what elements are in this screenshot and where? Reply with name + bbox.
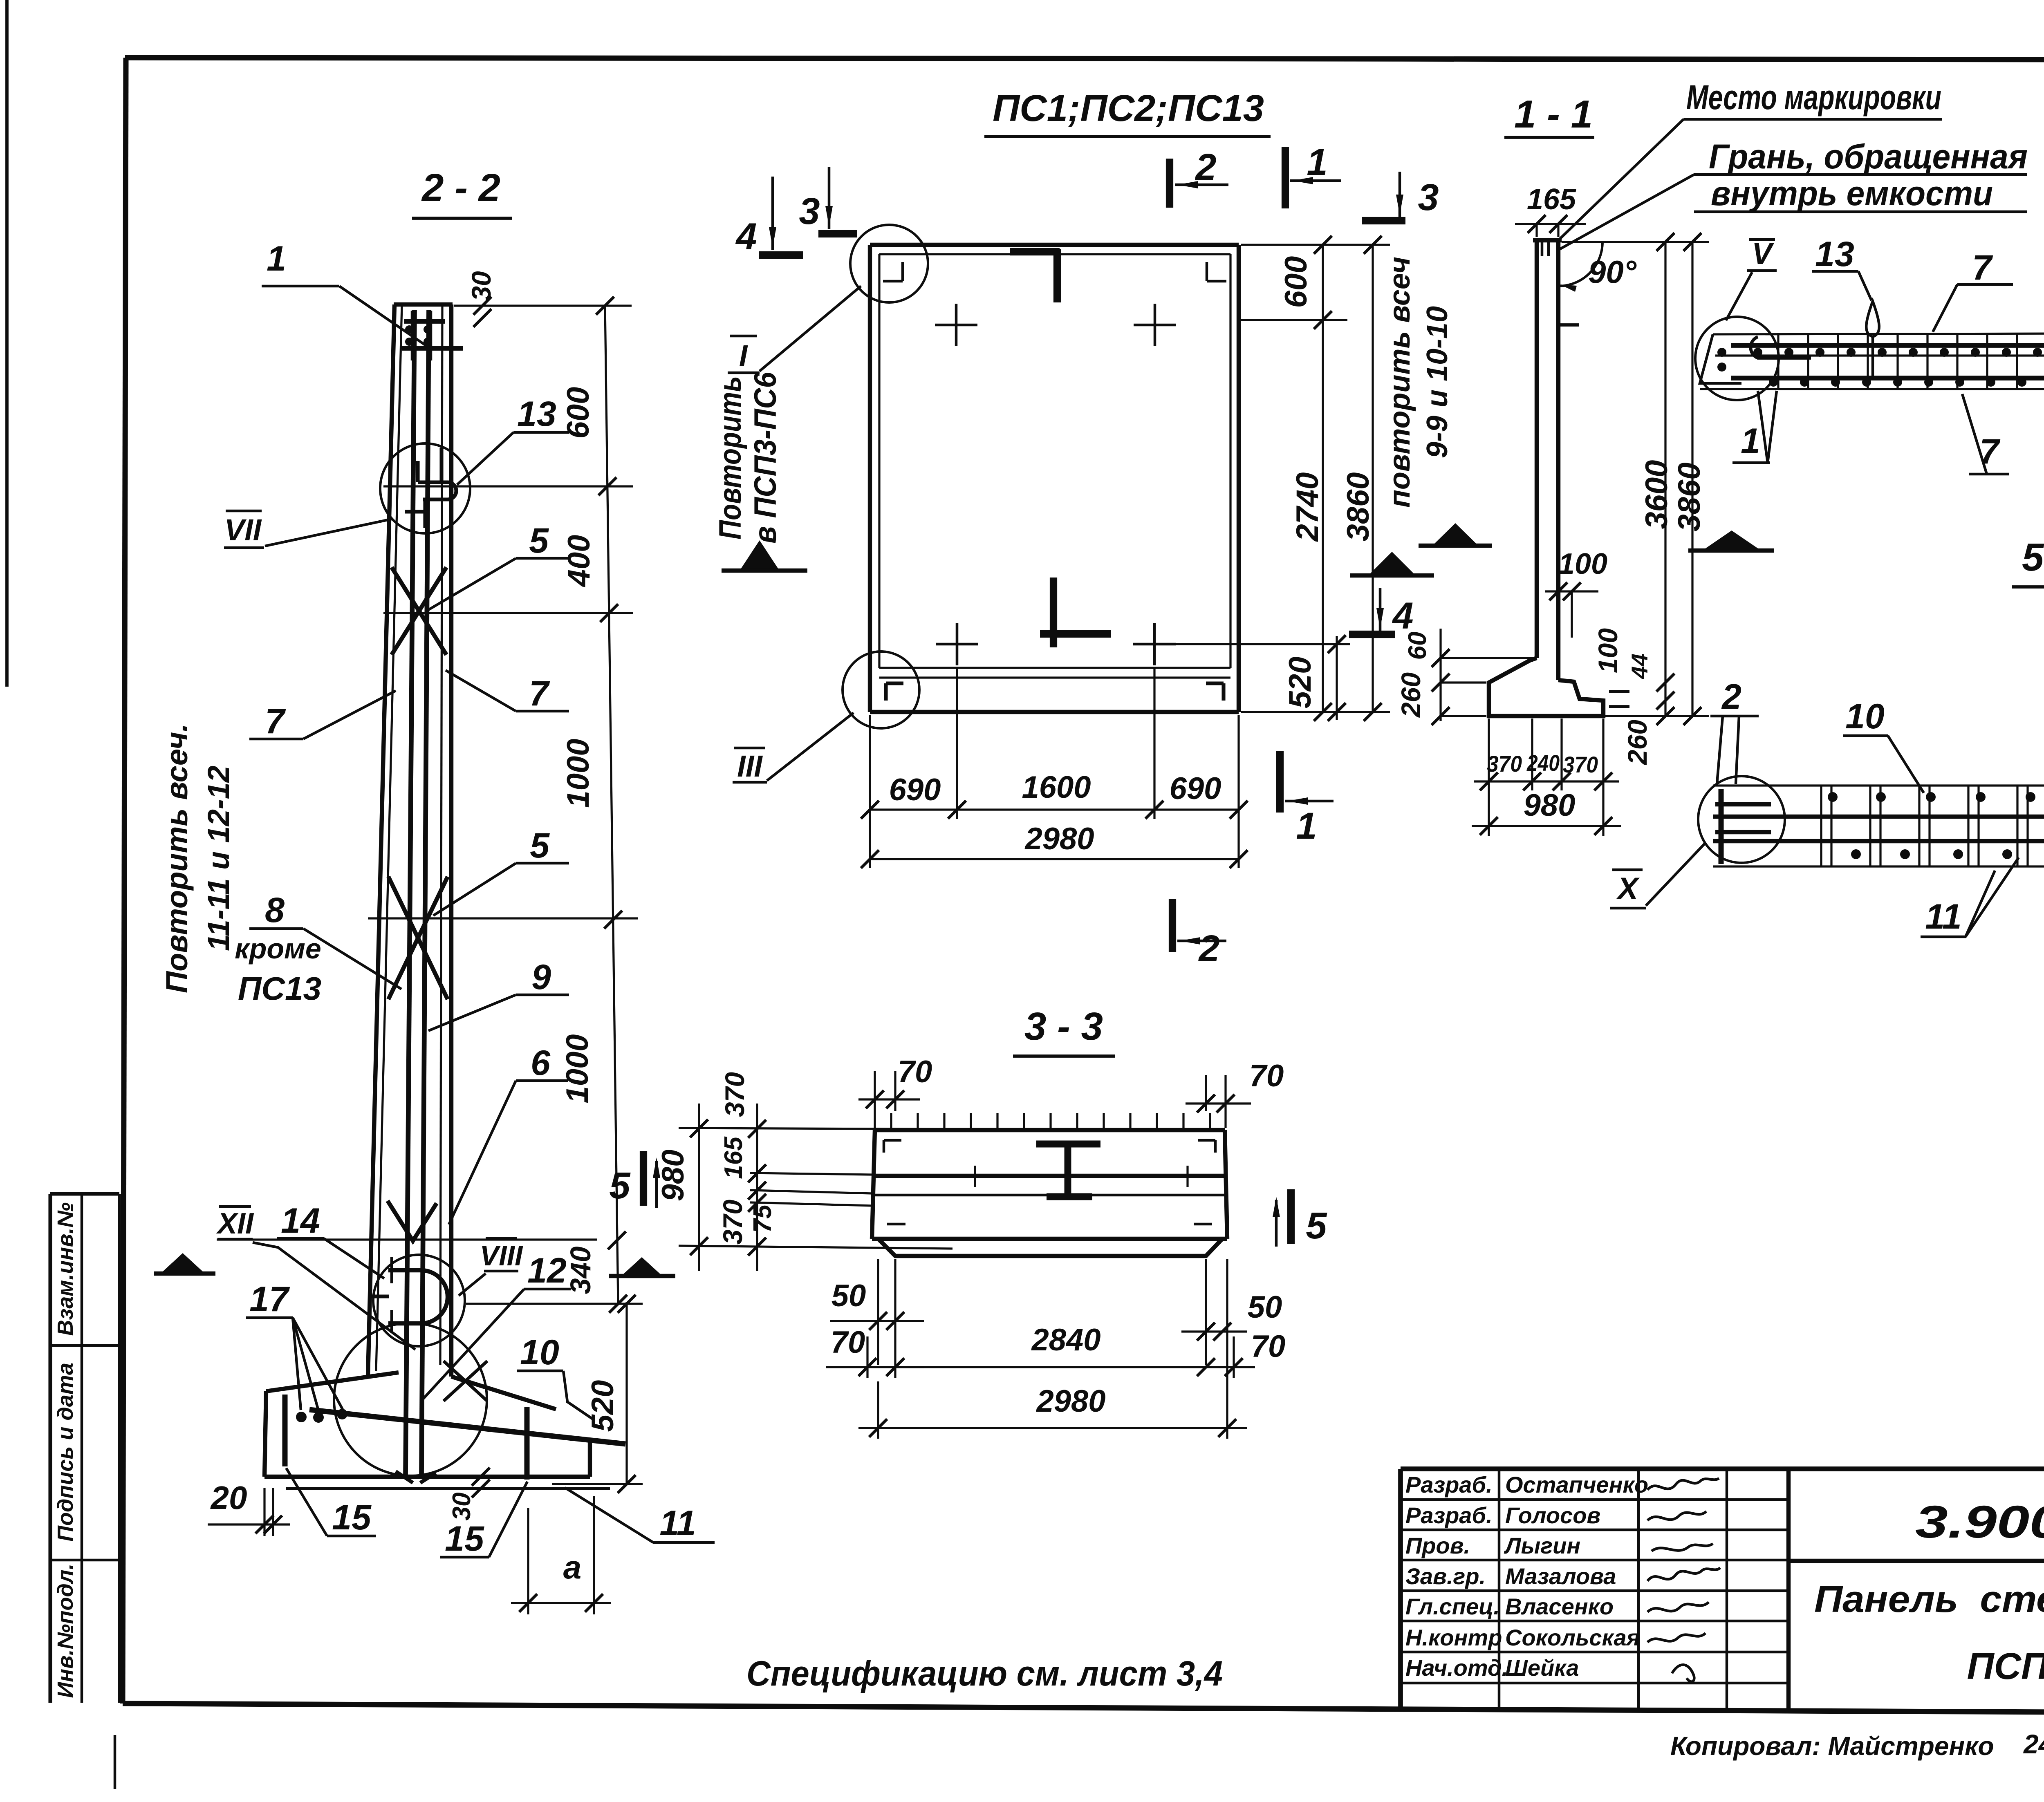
svg-text:VIII: VIII: [480, 1240, 523, 1271]
svg-text:a: a: [563, 1549, 582, 1585]
section 5-5 thin band top: [1713, 784, 2044, 786]
leader 7 right: [446, 670, 516, 711]
plan inner top line: [879, 253, 1230, 255]
plan lifting cross bottom left: [956, 623, 959, 665]
left strip column divider: [81, 1194, 83, 1703]
section 4-4 mesh stirrups: [1777, 333, 1779, 388]
svg-text:17: 17: [249, 1280, 290, 1319]
section 2-2 dim ext y3035: [217, 1238, 597, 1240]
svg-text:5: 5: [1306, 1205, 1327, 1247]
svg-text:Сокольская: Сокольская: [1505, 1625, 1640, 1650]
V zigzag rebar above foot: [388, 1201, 437, 1241]
section 1-1 dim line 3860: [1691, 242, 1693, 716]
drawing frame left border: [123, 58, 126, 1704]
plan bottom dim line 690-1600-690: [870, 808, 1239, 810]
svg-text:70: 70: [831, 1325, 865, 1360]
section 2-2 foot bottom: [264, 1475, 590, 1479]
svg-text:Власенко: Власенко: [1505, 1594, 1614, 1619]
section 1-1 right ext top: [1562, 241, 1709, 243]
section 5-5 thin band hooks: [1715, 802, 1771, 806]
survey triangle plan left: [741, 540, 778, 569]
leaders 1 4-4: [1758, 391, 1768, 463]
plan dim line 600-2740: [1322, 245, 1324, 712]
svg-text:1: 1: [1741, 421, 1760, 461]
dim 520 bottom ext: [552, 1483, 643, 1485]
svg-text:1000: 1000: [560, 1034, 595, 1103]
drawing frame bottom border: [123, 1704, 2044, 1714]
svg-text:1600: 1600: [1022, 770, 1091, 805]
detail circle X: [1698, 776, 1785, 863]
survey triangle right of 1-1: [1705, 531, 1759, 549]
plan dim 520 right bottom: [1169, 643, 1350, 645]
svg-text:1: 1: [267, 239, 286, 278]
section 3-3 small ticks on mid line: [974, 1166, 976, 1187]
leader 7 top left 4-4: [1933, 284, 1957, 332]
svg-text:3.900.1-10.2-3 -03.00: 3.900.1-10.2-3 -03.00: [1915, 1496, 2044, 1547]
90 degree arc: [1558, 242, 1602, 286]
section 2-2 panel left inner line: [376, 304, 402, 1371]
leader 7 bottom mid 4-4: [1962, 394, 1987, 474]
svg-text:14: 14: [281, 1201, 320, 1240]
section 3-3 dim line 980: [698, 1104, 700, 1271]
section 2-2 dim ext y1190: [383, 485, 633, 487]
svg-text:11: 11: [659, 1504, 696, 1543]
plan lifting cross top right: [1154, 304, 1156, 346]
svg-text:520: 520: [1283, 657, 1318, 709]
svg-text:260: 260: [1396, 672, 1426, 718]
section 3-3 top ticks: [890, 1113, 892, 1130]
plan top-right corner plate: [1206, 262, 1208, 281]
svg-text:11: 11: [1925, 897, 1961, 936]
section 3-3 left ext lines: [679, 1128, 981, 1129]
svg-text:11-11 и 12-12: 11-11 и 12-12: [202, 766, 235, 951]
svg-text:520: 520: [585, 1380, 620, 1432]
leader 10 foot: [563, 1371, 593, 1419]
svg-text:2: 2: [1195, 146, 1216, 188]
leader 12: [422, 1289, 524, 1400]
section 5-5 thin band bar 2: [1713, 839, 2044, 843]
svg-text:2 - 2: 2 - 2: [421, 166, 500, 210]
plan outer rectangle: [870, 243, 1239, 247]
section 4-4 mesh top bar: [1731, 343, 2044, 348]
section 2-2 foot lower second line: [286, 1487, 610, 1490]
leader 10 left: [1888, 736, 1924, 793]
leaders 2: [1717, 716, 1723, 784]
svg-text:2: 2: [1198, 928, 1219, 969]
section 1-1 left dim line: [1439, 629, 1441, 721]
leader 7 left: [303, 691, 396, 739]
section marker 2 top: [1166, 159, 1173, 208]
leader 5 lower: [433, 863, 516, 916]
svg-text:240: 240: [1526, 750, 1560, 776]
section 3-3 top edge: [875, 1128, 1225, 1132]
section 3-3 bottom line: [872, 1237, 1227, 1241]
svg-text:24397-01: 24397-01: [2023, 1729, 2044, 1759]
П-shaped rebar detail in circle VII: [416, 461, 419, 482]
leader III: [767, 713, 854, 781]
section 2-2 dim ext y2250: [368, 917, 638, 919]
section 2-2 foot dots: [296, 1412, 307, 1422]
svg-text:Взам.инв.№: Взам.инв.№: [53, 1202, 78, 1336]
svg-text:20: 20: [210, 1480, 247, 1516]
section 2-2 title underline: [412, 217, 512, 220]
svg-text:Инв.№подл.: Инв.№подл.: [53, 1564, 78, 1698]
survey triangle foot right: [623, 1257, 661, 1274]
detail circle VIII big: [334, 1323, 487, 1476]
svg-text:980: 980: [656, 1150, 690, 1202]
plan bottom-right corner mark: [1206, 681, 1224, 685]
svg-text:9-9 и 10-10: 9-9 и 10-10: [1421, 306, 1454, 458]
svg-text:Лыгин: Лыгин: [1504, 1533, 1580, 1558]
svg-text:Повторить всеч.: Повторить всеч.: [160, 723, 194, 993]
fold mark below frame: [114, 1735, 117, 1789]
section 1-1 wall right edge: [1556, 240, 1560, 680]
title block outer border: [1401, 1466, 2044, 1471]
svg-text:Панель стеновая: Панель стеновая: [1814, 1578, 2044, 1620]
svg-text:7: 7: [529, 674, 550, 713]
section marker 1 top: [1282, 147, 1289, 208]
rebar hooks at foot bottom: [396, 1471, 413, 1483]
svg-text:Нач.отд.: Нач.отд.: [1405, 1655, 1508, 1681]
svg-text:30: 30: [466, 271, 496, 301]
svg-text:повторить всеч: повторить всеч: [1383, 257, 1416, 508]
section 2-2 panel right outer edge: [449, 304, 453, 1377]
section 1-1 wall top edge: [1533, 238, 1562, 242]
section 5-5 thin band left end bar: [1719, 789, 1724, 864]
svg-text:5: 5: [529, 521, 549, 560]
section 2-2 foot right vertical bar 15: [524, 1407, 530, 1480]
svg-text:Голосов: Голосов: [1505, 1502, 1600, 1528]
section 2-2 dim ext top: [454, 304, 632, 307]
svg-text:100: 100: [1593, 628, 1623, 673]
svg-text:7: 7: [1972, 248, 1993, 287]
svg-text:внутрь емкости: внутрь емкости: [1711, 174, 1993, 213]
svg-text:7: 7: [265, 702, 286, 741]
leader 13: [457, 432, 513, 485]
svg-text:370: 370: [719, 1072, 750, 1117]
svg-text:340: 340: [565, 1247, 596, 1294]
section 1-1 wall mid dash: [1560, 323, 1579, 327]
svg-text:90°: 90°: [1588, 254, 1637, 290]
svg-text:165: 165: [1527, 183, 1576, 216]
leader 11: [565, 1488, 653, 1542]
svg-text:980: 980: [1524, 788, 1576, 823]
svg-text:600: 600: [1279, 256, 1313, 308]
plan inner bottom line 2: [879, 676, 1230, 678]
svg-text:3: 3: [799, 190, 820, 232]
svg-text:1000: 1000: [561, 739, 596, 808]
leader XII: [253, 1242, 415, 1350]
section 4-4 left end wedge: [1700, 334, 1741, 383]
svg-text:4: 4: [1392, 595, 1413, 637]
section 2-2 dim ext y3190: [466, 1303, 643, 1305]
svg-text:3: 3: [1418, 177, 1439, 218]
detail circle XII small: [373, 1255, 465, 1346]
title block vertical line col1: [1498, 1469, 1501, 1708]
X cross rebar upper: [392, 567, 446, 655]
section 2-2 foot left edge: [264, 1391, 266, 1477]
svg-text:9: 9: [531, 958, 551, 997]
title block row lines left part: [1401, 1498, 1788, 1501]
leader X: [1646, 843, 1706, 906]
svg-text:10: 10: [520, 1333, 559, 1372]
section 1-1 bottom dim exts: [1488, 719, 1490, 836]
svg-text:Разраб.: Разраб.: [1405, 1502, 1493, 1528]
section 5-5 thin band bottom: [1713, 865, 2044, 867]
svg-text:2980: 2980: [1024, 822, 1094, 856]
left strip row divider 1: [50, 1344, 119, 1347]
section 3-3 mid line 1: [872, 1174, 1227, 1178]
survey triangle foot left: [162, 1253, 203, 1272]
leader VII: [265, 519, 392, 546]
svg-text:Остапченко: Остапченко: [1505, 1472, 1648, 1498]
svg-text:5: 5: [530, 826, 550, 865]
svg-text:2: 2: [1721, 677, 1741, 716]
svg-text:690: 690: [889, 772, 941, 807]
plan top-left corner plate: [901, 262, 904, 281]
svg-text:Н.контр: Н.контр: [1405, 1625, 1502, 1650]
section 3-3 left edge: [872, 1130, 875, 1239]
section 2-2 top anchor vertical ticks: [411, 311, 414, 360]
section 5-5 thin band dots bottom: [1851, 849, 1861, 859]
svg-text:1 - 1: 1 - 1: [1514, 92, 1593, 136]
section 2-2 main dim line: [605, 306, 618, 1304]
plan bottom center T mark: [1050, 578, 1057, 647]
section 2-2 foot thick slant rebar 10: [309, 1410, 625, 1444]
svg-text:12: 12: [527, 1251, 567, 1290]
X brace in circle VIII: [444, 1361, 487, 1401]
svg-text:8: 8: [265, 891, 285, 930]
section 2-2 rebar bar A: [406, 310, 415, 1476]
title block vertical line col4: [1786, 1469, 1791, 1711]
section 4-4 left end dots: [1717, 348, 1726, 357]
leaders 17: [293, 1318, 301, 1410]
leader I: [760, 286, 861, 371]
svg-text:Разраб.: Разраб.: [1405, 1472, 1493, 1498]
leader VIII: [459, 1274, 486, 1296]
left strip row divider 2: [50, 1559, 119, 1562]
section 3-3 corner dashes: [884, 1139, 901, 1142]
svg-text:ПС13: ПС13: [238, 970, 321, 1007]
section 3-3 T mark: [1036, 1141, 1100, 1148]
detail circle VII: [380, 443, 470, 533]
svg-text:100: 100: [1558, 548, 1607, 580]
section 4-4 top line 1: [1713, 333, 2044, 334]
section 3-3 right edge: [1225, 1130, 1227, 1239]
svg-text:Повторить: Повторить: [713, 376, 748, 539]
plan lifting cross bottom right: [1153, 623, 1156, 665]
section 1-1 wall top notches: [1541, 240, 1544, 256]
dim line 980: [1472, 825, 1621, 827]
svg-text:ПС1;ПС2;ПС13: ПС1;ПС2;ПС13: [993, 87, 1264, 129]
svg-text:6: 6: [531, 1043, 551, 1083]
section 4-4 mesh dots row 2: [1769, 378, 1778, 387]
svg-text:44: 44: [1627, 654, 1652, 679]
leader of label 1: [339, 286, 430, 349]
plan bottom dim line 2980: [870, 858, 1239, 860]
section 2-2 panel top edge: [394, 302, 453, 307]
svg-text:Копировал: Майстренко: Копировал: Майстренко: [1670, 1731, 1994, 1761]
plan inner left line: [878, 254, 880, 668]
title block vertical line col3: [1726, 1469, 1728, 1708]
svg-text:VII: VII: [224, 513, 262, 547]
survey triangle left of 1-1 b: [1434, 523, 1477, 544]
section 1-1 right ext bottom: [1605, 715, 1709, 717]
detail circle V: [1695, 317, 1779, 400]
leader 15 right: [489, 1482, 527, 1557]
section 1-1 foot right dashes: [1609, 690, 1629, 693]
title block signatures: [1647, 1478, 1719, 1490]
svg-text:600: 600: [561, 387, 596, 439]
drawing frame top border: [125, 58, 2044, 60]
leader 13 section 4-4: [1858, 271, 1871, 300]
section 2-2 top anchor bar 1: [404, 319, 445, 324]
svg-text:I: I: [739, 339, 748, 373]
section marker 2 bottom right: [1169, 899, 1176, 952]
section 2-2 rebar bar B: [421, 310, 429, 1476]
П bracket rebar in circle XII: [388, 1268, 421, 1272]
svg-text:XII: XII: [216, 1207, 254, 1240]
svg-text:400: 400: [562, 535, 596, 588]
svg-text:13: 13: [1815, 235, 1854, 274]
detail circle III: [843, 651, 919, 728]
section 3-3 mid line 2: [872, 1194, 1227, 1197]
plan bottom ext verticals: [869, 715, 871, 868]
section 4-4 mesh dots row 1: [1753, 348, 1762, 357]
plan inner bottom line 1: [879, 667, 1230, 669]
section 2-2 foot left vertical bar 15: [282, 1395, 288, 1466]
svg-text:50: 50: [1248, 1290, 1282, 1325]
svg-text:1: 1: [1296, 805, 1317, 847]
leaders 11 left: [1966, 871, 1995, 937]
section 5-5 thin band dots top: [1828, 792, 1838, 802]
svg-text:ПСП36: ПСП36: [1967, 1645, 2044, 1687]
title block vertical line col2: [1637, 1469, 1640, 1708]
X cross rebar lower: [388, 877, 448, 999]
svg-text:5 - 5: 5 - 5: [2022, 535, 2044, 579]
dim 30 ticks: [473, 297, 491, 315]
section marker 1 bottom right: [1276, 751, 1284, 813]
svg-text:2740: 2740: [1290, 472, 1325, 542]
svg-text:3 - 3: 3 - 3: [1024, 1005, 1103, 1048]
svg-text:Гл.спец.: Гл.спец.: [1405, 1594, 1500, 1619]
svg-text:7: 7: [1979, 432, 2001, 471]
svg-text:в ПСП3-ПС6: в ПСП3-ПС6: [748, 372, 783, 544]
svg-text:10: 10: [1845, 697, 1885, 736]
svg-text:Мазалова: Мазалова: [1505, 1563, 1616, 1589]
svg-text:70: 70: [898, 1054, 932, 1089]
svg-text:690: 690: [1170, 771, 1221, 806]
leader 15 left: [286, 1468, 327, 1536]
svg-text:Подпись и дата: Подпись и дата: [53, 1363, 78, 1542]
section 2-2 foot top right slant: [451, 1377, 556, 1409]
svg-text:165: 165: [719, 1136, 748, 1179]
plan dim line 3860: [1372, 245, 1374, 712]
sheet left paper edge: [5, 0, 9, 687]
svg-text:370: 370: [1487, 751, 1522, 777]
svg-text:2980: 2980: [1035, 1384, 1105, 1419]
plan lifting cross top left: [955, 304, 958, 346]
section 2-2 foot right edge: [588, 1442, 592, 1477]
svg-text:V: V: [1752, 237, 1774, 271]
leader 8: [303, 929, 401, 989]
plan bottom-left corner mark: [886, 681, 903, 685]
svg-text:Спецификацию см. лист 3,4: Спецификацию см. лист 3,4: [746, 1654, 1223, 1693]
detail circle I: [850, 225, 928, 302]
section 1-1 foot outline: [1489, 658, 1603, 716]
leader V: [1726, 272, 1752, 320]
section 4-4 left end hook: [1750, 337, 1811, 358]
svg-text:370: 370: [717, 1200, 748, 1245]
svg-text:X: X: [1616, 871, 1640, 906]
svg-text:III: III: [737, 749, 763, 783]
section 1-1 wall left edge: [1535, 240, 1539, 658]
section 2-2 top anchor dots: [405, 325, 413, 334]
svg-text:Пров.: Пров.: [1405, 1533, 1470, 1558]
plan right dim ext lines: [1241, 244, 1390, 246]
svg-text:370: 370: [1563, 752, 1598, 777]
svg-text:кроме: кроме: [235, 933, 321, 965]
section 2-2 panel left outer edge: [368, 304, 394, 1377]
section 4-4 teardrop 13: [1866, 301, 1879, 337]
svg-text:4: 4: [735, 216, 757, 257]
leader 9: [428, 995, 516, 1031]
section 3-3 left dim chain: [756, 1104, 758, 1271]
title block horizontal under doc number: [1788, 1559, 2044, 1563]
svg-text:2840: 2840: [1031, 1323, 1100, 1357]
section 2-2 dim chain ticks: [596, 297, 614, 315]
plan thick corner bracket mark: [1010, 248, 1060, 255]
section 4-4 top line 2: [1715, 354, 2044, 356]
plan inner right line: [1229, 254, 1231, 668]
svg-text:15: 15: [445, 1519, 484, 1558]
svg-text:1: 1: [1307, 141, 1327, 183]
section 2-2 foot top left slant: [266, 1372, 399, 1391]
leader 6: [449, 1081, 516, 1224]
section 4-4 mesh bottom line: [1700, 388, 2044, 390]
leader 5 upper: [428, 558, 516, 610]
section 5-5 thin band stirrups: [1820, 786, 1822, 866]
svg-text:70: 70: [1251, 1329, 1286, 1364]
svg-text:3860: 3860: [1672, 462, 1707, 531]
section 2-2 dim ext y1500: [383, 612, 633, 614]
dim line 370-240-370: [1474, 780, 1619, 782]
section 2-2 top anchor bar 2: [402, 346, 463, 351]
svg-text:50: 50: [831, 1278, 866, 1313]
plan title underline: [984, 135, 1271, 138]
section 5-5 thin band bar 1: [1713, 815, 2044, 819]
svg-text:13: 13: [517, 394, 556, 434]
svg-text:Грань, обращенная: Грань, обращенная: [1709, 137, 2028, 176]
dim line 520: [625, 1302, 628, 1485]
svg-text:Шейка: Шейка: [1505, 1655, 1579, 1681]
svg-text:3600: 3600: [1639, 460, 1674, 529]
section 1-1 dim line 3600: [1664, 242, 1666, 716]
svg-text:Место маркировки: Место маркировки: [1686, 78, 1941, 116]
section 3-3 lower lip: [878, 1239, 1222, 1256]
svg-text:5: 5: [609, 1165, 631, 1207]
svg-text:260: 260: [1622, 720, 1652, 766]
section 4-4 mesh bottom bar: [1731, 376, 2044, 381]
survey triangle left of 1-1 a: [1370, 552, 1414, 574]
leader 14 foot: [324, 1238, 384, 1278]
svg-text:3860: 3860: [1341, 472, 1376, 541]
svg-text:70: 70: [1249, 1059, 1284, 1093]
left strip outline: [50, 1192, 119, 1195]
svg-text:75: 75: [749, 1204, 777, 1233]
section 2-2 panel right inner line: [440, 304, 442, 1365]
svg-text:Зав.гр.: Зав.гр.: [1405, 1563, 1486, 1589]
